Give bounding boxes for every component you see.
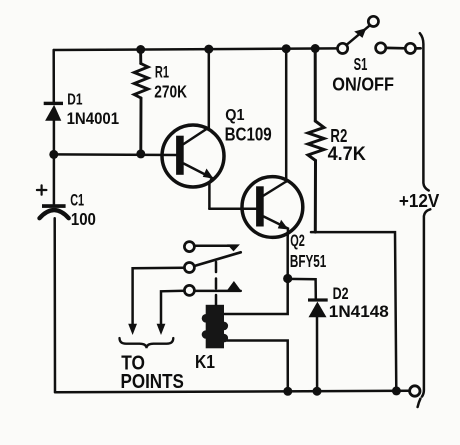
svg-text:BFY51: BFY51 xyxy=(290,252,327,271)
wire R2 bottom to ground drop xyxy=(311,232,396,391)
svg-text:R1: R1 xyxy=(155,63,169,81)
svg-text:POINTS: POINTS xyxy=(121,370,184,393)
svg-text:K1: K1 xyxy=(195,351,215,372)
svg-text:R2: R2 xyxy=(330,125,347,146)
svg-text:S1: S1 xyxy=(354,54,368,74)
node (D2 on bottom rail) xyxy=(313,387,322,396)
transistor Q2 xyxy=(242,177,303,279)
transistor Q1 xyxy=(162,125,224,209)
node (Q2 collector on rail) xyxy=(282,44,291,53)
wire pole3 to fixed contact xyxy=(194,290,240,293)
node (Q1 collector on rail) xyxy=(204,45,213,54)
resistor R1 xyxy=(134,50,148,154)
svg-text:100: 100 xyxy=(71,210,96,229)
contact point (up triangle) xyxy=(227,281,241,290)
relay contact pole 1 (top) xyxy=(184,242,194,252)
wire Q1 collector up xyxy=(208,49,211,127)
brace under arrows xyxy=(120,338,174,348)
svg-text:1N4148: 1N4148 xyxy=(329,302,389,321)
node C (Q2 emitter junction) xyxy=(283,274,292,283)
resistor R2 xyxy=(308,49,324,233)
node (R2 top on rail) xyxy=(311,44,320,53)
node (relay return on bottom rail) xyxy=(283,387,292,396)
node (ground drop on bottom rail) xyxy=(392,386,401,395)
contact point (down triangle) xyxy=(227,244,240,251)
wire relay bottom terminal to bottom rail xyxy=(225,341,288,392)
wire pole2 to points (left arrow) xyxy=(133,268,185,325)
wire pole3 to points (right arrow) xyxy=(161,291,184,325)
wire Q1 emitter to Q2 base xyxy=(209,207,256,210)
wire relay mechanical link (dashed) xyxy=(215,262,218,305)
svg-text:1N4001: 1N4001 xyxy=(67,109,120,128)
relay contact pole 3 (bottom) xyxy=(184,285,194,295)
svg-text:D2: D2 xyxy=(333,284,349,303)
svg-text:+12V: +12V xyxy=(399,190,440,211)
wire pole1 to fixed contact xyxy=(194,244,230,247)
terminal (bottom right) xyxy=(410,386,420,396)
wire D2 anode to bottom rail xyxy=(316,317,319,391)
wire bottom rail xyxy=(55,391,410,393)
armature arm xyxy=(194,252,240,266)
svg-text:C1: C1 xyxy=(70,191,84,209)
node B (R1 bottom junction) xyxy=(136,149,145,158)
wire top rail xyxy=(54,48,338,50)
svg-text:Q2: Q2 xyxy=(290,232,305,250)
svg-text:Q1: Q1 xyxy=(225,107,245,124)
diode D2 xyxy=(308,298,328,317)
svg-text:BC109: BC109 xyxy=(225,125,272,145)
node (R1 top on rail) xyxy=(136,45,145,54)
svg-text:270K: 270K xyxy=(154,82,187,102)
wire left vertical xyxy=(52,50,55,102)
svg-text:ON/OFF: ON/OFF xyxy=(332,73,394,94)
svg-text:4.7K: 4.7K xyxy=(328,144,366,165)
svg-text:D1: D1 xyxy=(67,92,82,109)
node A (D1/C1/R1 base junction) xyxy=(49,150,58,159)
wire Q2 collector up xyxy=(285,49,288,182)
diode D1 xyxy=(44,102,63,121)
relay contact pole 2 (middle, armature) xyxy=(184,263,194,273)
wire +12V rail (right) xyxy=(420,33,429,190)
wire base horizontal xyxy=(54,153,177,156)
wire emitter junction to D2 xyxy=(288,279,316,298)
relay coil K1 xyxy=(202,305,228,349)
wire emitter junction to relay top terminal xyxy=(225,279,288,315)
capacitor C1 xyxy=(37,185,69,218)
switch S1 xyxy=(338,16,421,53)
